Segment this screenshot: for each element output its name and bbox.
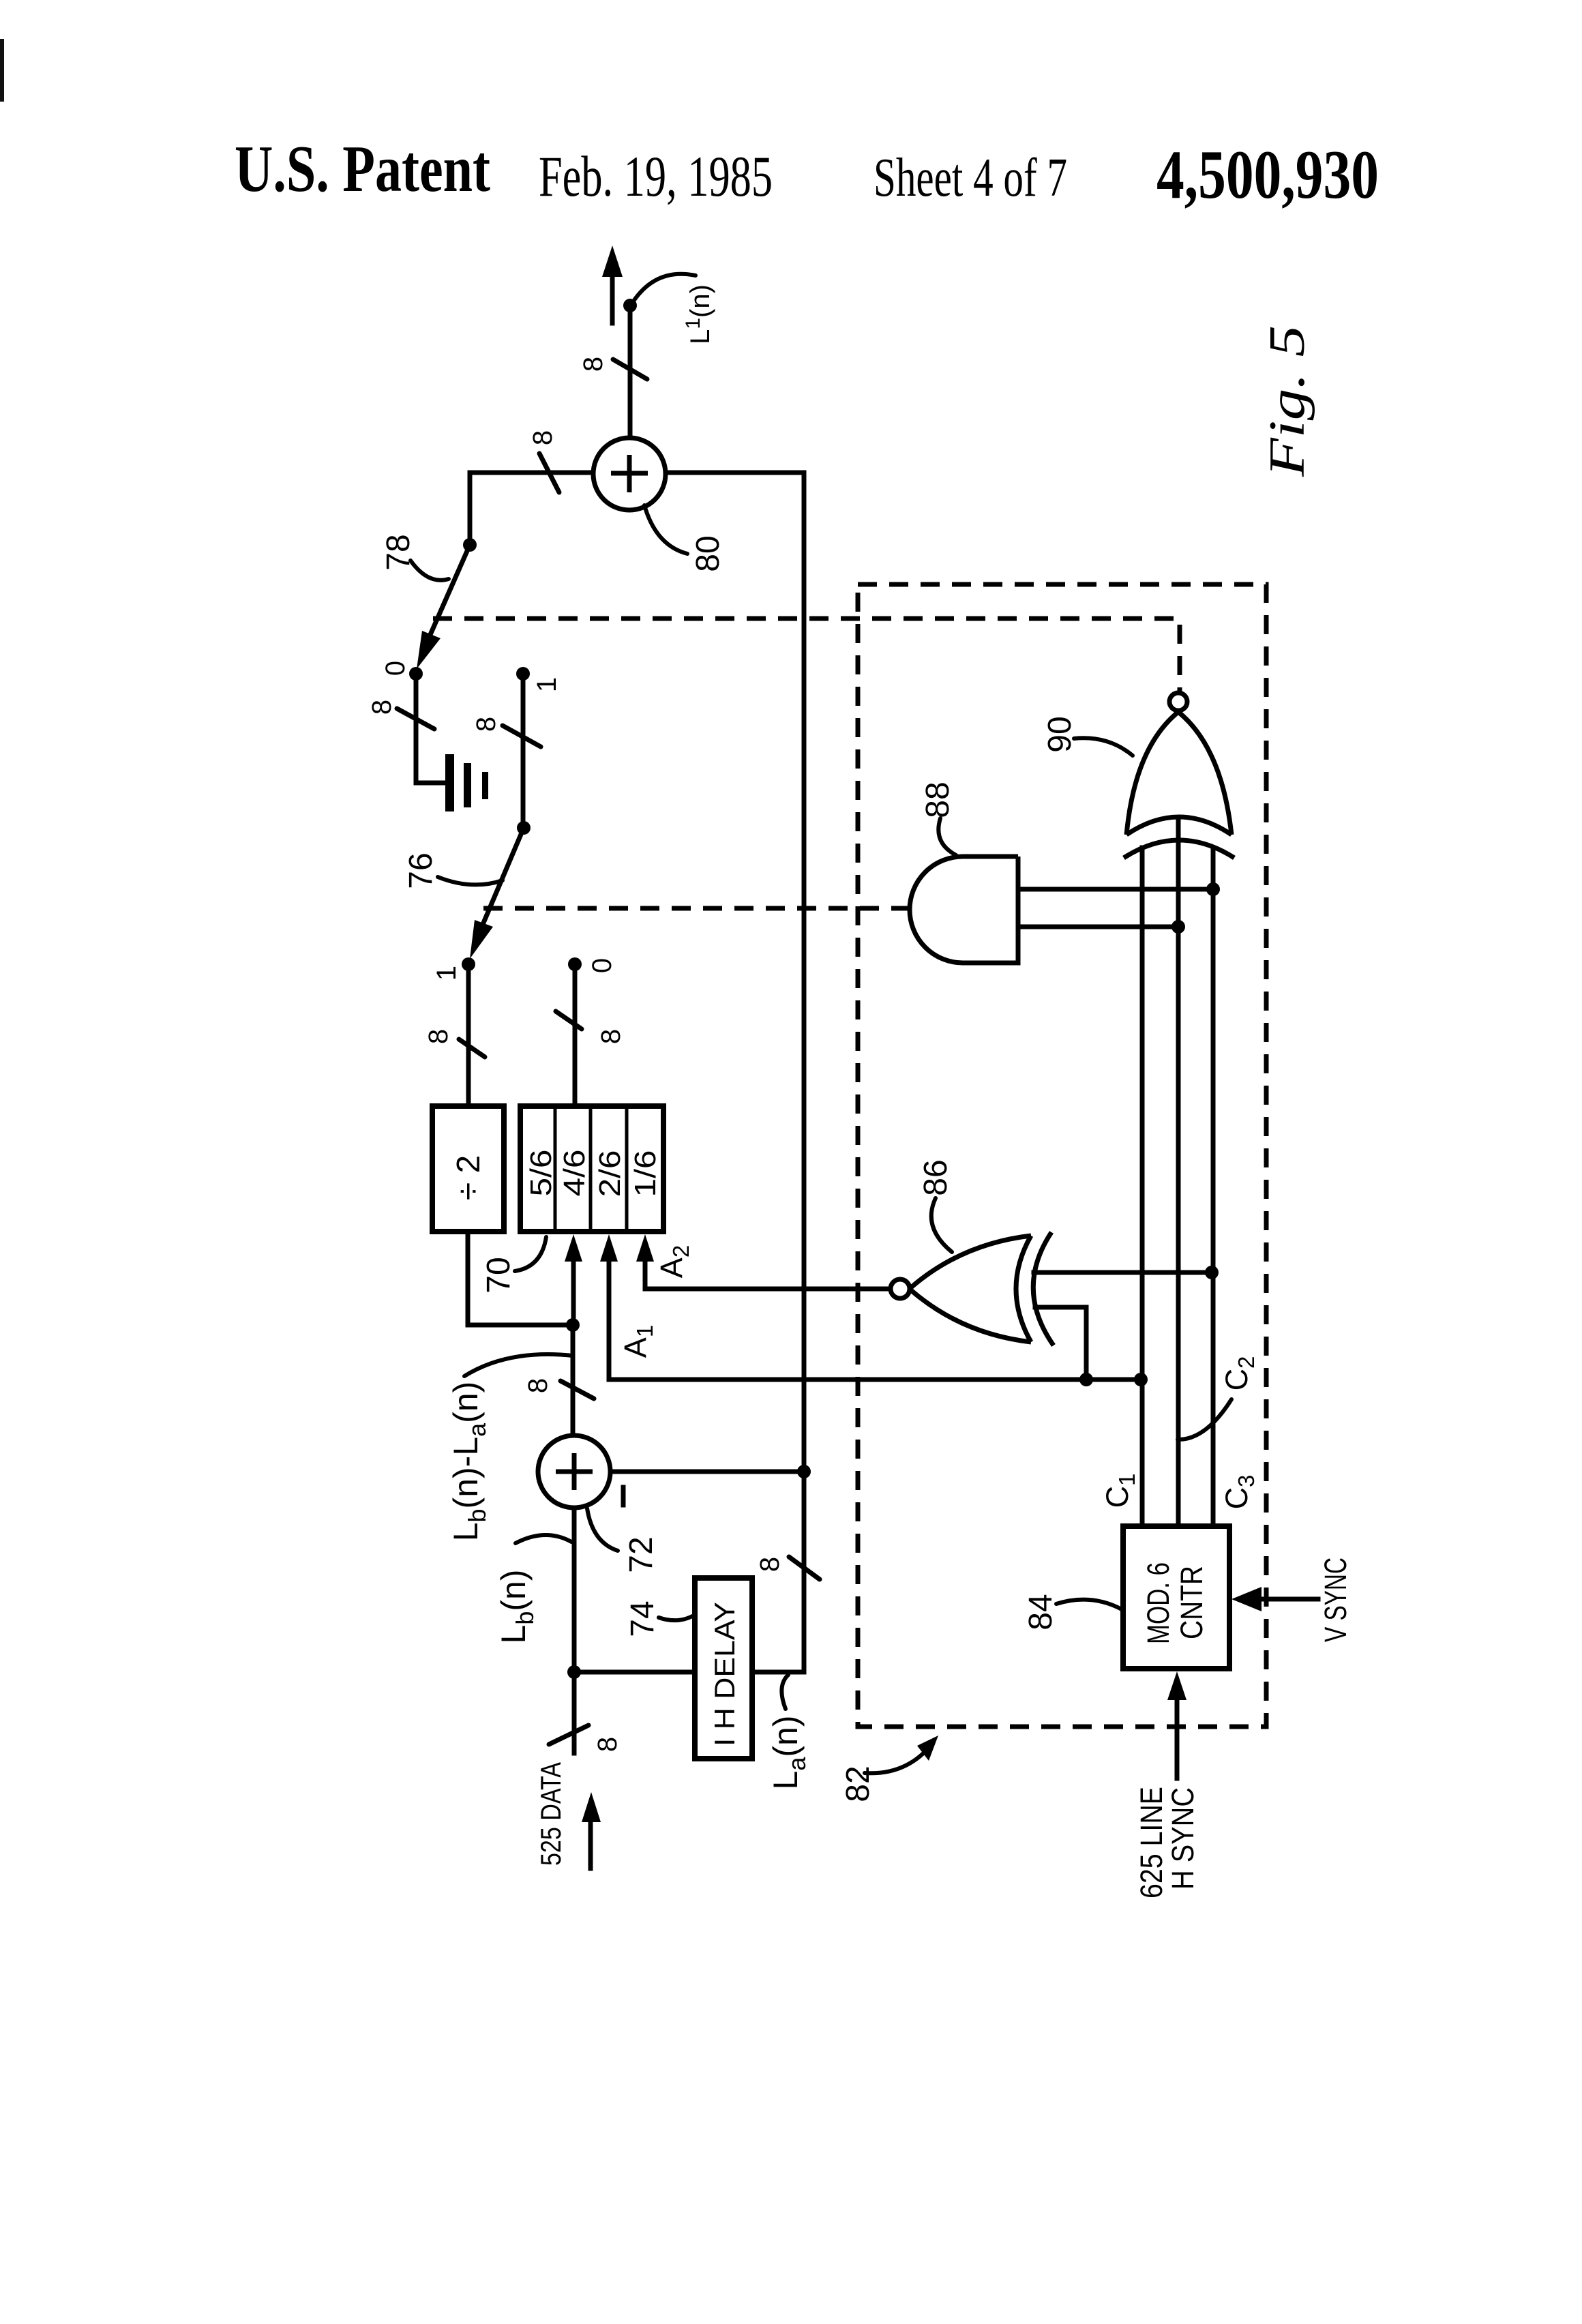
svg-text:8: 8 [593, 1737, 623, 1752]
svg-text:80: 80 [690, 535, 726, 571]
svg-text:8: 8 [523, 1378, 553, 1393]
svg-text:8: 8 [528, 430, 558, 445]
svg-text:Sheet 4 of 7: Sheet 4 of 7 [874, 148, 1067, 208]
svg-text:86: 86 [918, 1159, 954, 1195]
svg-text:84: 84 [1023, 1594, 1059, 1630]
svg-text:70: 70 [481, 1257, 517, 1293]
svg-text:2/6: 2/6 [593, 1150, 627, 1197]
svg-text:72: 72 [623, 1536, 659, 1573]
svg-text:L1(n): L1(n) [682, 284, 715, 344]
svg-text:8: 8 [471, 717, 501, 732]
svg-text:82: 82 [840, 1766, 876, 1802]
svg-text:V SYNC: V SYNC [1318, 1558, 1353, 1642]
svg-text:8: 8 [596, 1029, 626, 1044]
svg-text:74: 74 [625, 1600, 661, 1637]
svg-text:8: 8 [423, 1029, 453, 1044]
svg-text:1/6: 1/6 [629, 1150, 662, 1197]
svg-text:4/6: 4/6 [558, 1150, 591, 1197]
svg-text:5/6: 5/6 [524, 1150, 558, 1197]
svg-text:U.S. Patent: U.S. Patent [235, 132, 490, 205]
svg-text:CNTR: CNTR [1174, 1566, 1209, 1639]
svg-text:4,500,930: 4,500,930 [1156, 136, 1379, 213]
svg-text:88: 88 [920, 781, 956, 818]
svg-text:625 LINE: 625 LINE [1134, 1787, 1169, 1898]
svg-text:I H DELAY: I H DELAY [708, 1602, 741, 1746]
svg-text:1: 1 [532, 677, 562, 692]
svg-text:525 DATA: 525 DATA [535, 1762, 567, 1866]
svg-text:78: 78 [380, 534, 417, 570]
svg-text:MOD. 6: MOD. 6 [1141, 1562, 1176, 1644]
svg-text:8: 8 [367, 700, 397, 715]
svg-text:La(n): La(n) [766, 1716, 811, 1790]
svg-text:76: 76 [403, 852, 439, 889]
svg-text:Fig. 5: Fig. 5 [1259, 325, 1315, 477]
svg-text:÷ 2: ÷ 2 [451, 1155, 487, 1200]
svg-text:0: 0 [380, 661, 411, 676]
svg-text:8: 8 [578, 357, 608, 372]
svg-text:1: 1 [432, 966, 462, 981]
svg-text:8: 8 [755, 1557, 785, 1572]
svg-text:0: 0 [587, 958, 617, 973]
svg-text:Lb(n): Lb(n) [494, 1570, 539, 1644]
svg-text:Feb. 19, 1985: Feb. 19, 1985 [539, 145, 773, 209]
svg-text:H SYNC: H SYNC [1165, 1787, 1200, 1890]
svg-text:90: 90 [1042, 716, 1078, 752]
